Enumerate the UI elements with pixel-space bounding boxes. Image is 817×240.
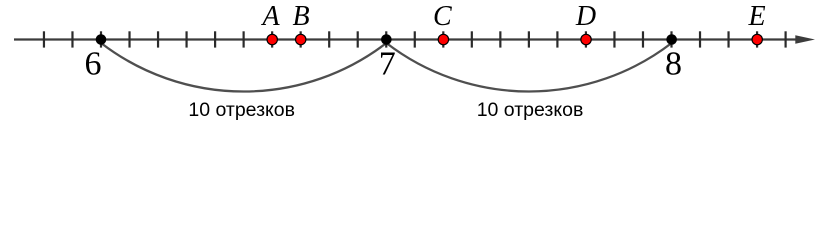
svg-text:7: 7	[379, 46, 396, 83]
svg-text:10 отрезков: 10 отрезков	[188, 99, 295, 121]
svg-text:6: 6	[85, 46, 102, 83]
svg-text:8: 8	[665, 46, 682, 83]
svg-text:D: D	[575, 1, 596, 32]
svg-text:B: B	[292, 1, 309, 32]
svg-text:A: A	[260, 1, 280, 32]
svg-text:10 отрезков: 10 отрезков	[477, 99, 584, 121]
svg-text:C: C	[433, 1, 452, 32]
svg-text:E: E	[747, 1, 765, 32]
